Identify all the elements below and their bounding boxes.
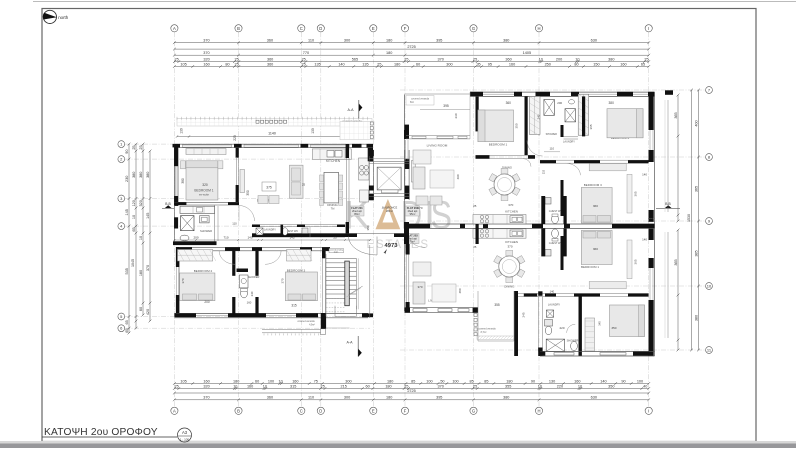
svg-text:90: 90 — [621, 379, 625, 383]
svg-text:A-A: A-A — [347, 341, 354, 345]
svg-text:380: 380 — [503, 396, 509, 400]
svg-text:370: 370 — [507, 245, 512, 249]
svg-text:covered veranda: covered veranda — [297, 320, 315, 323]
svg-text:180: 180 — [386, 396, 392, 400]
svg-text:315: 315 — [290, 384, 296, 388]
svg-text:25: 25 — [644, 57, 648, 61]
svg-text:320: 320 — [203, 57, 209, 61]
svg-text:BEDROOM 3: BEDROOM 3 — [584, 183, 602, 187]
svg-text:115: 115 — [541, 169, 545, 174]
svg-text:95: 95 — [488, 62, 492, 66]
svg-text:north: north — [58, 15, 69, 20]
svg-text:10: 10 — [538, 384, 542, 388]
svg-text:85: 85 — [484, 379, 488, 383]
svg-text:380: 380 — [608, 57, 614, 61]
svg-text:370: 370 — [181, 278, 185, 283]
svg-text:10: 10 — [278, 379, 282, 383]
svg-text:395: 395 — [436, 396, 442, 400]
svg-text:4,9m²: 4,9m² — [309, 324, 315, 327]
svg-text:360: 360 — [267, 39, 273, 43]
svg-text:105: 105 — [180, 379, 186, 383]
svg-text:100: 100 — [426, 379, 432, 383]
svg-text:100: 100 — [268, 379, 274, 383]
svg-text:535: 535 — [125, 268, 129, 274]
svg-text:160: 160 — [203, 62, 209, 66]
svg-text:370: 370 — [417, 285, 422, 289]
svg-text:10: 10 — [575, 57, 579, 61]
svg-text:BEDROOM 1: BEDROOM 1 — [581, 265, 599, 269]
svg-text:360: 360 — [593, 204, 598, 208]
svg-text:120: 120 — [132, 200, 136, 206]
svg-text:250: 250 — [545, 62, 551, 66]
svg-text:B-B: B-B — [665, 202, 671, 206]
svg-text:90: 90 — [531, 379, 535, 383]
svg-text:215: 215 — [340, 384, 346, 388]
svg-text:60: 60 — [139, 307, 143, 311]
svg-text:130: 130 — [311, 128, 315, 134]
svg-text:65: 65 — [641, 62, 645, 66]
svg-text:85: 85 — [469, 379, 473, 383]
svg-text:105: 105 — [180, 62, 186, 66]
svg-text:ΚΑΤΟΨΗ 2ου ΟΡΟΦΟΥ: ΚΑΤΟΨΗ 2ου ΟΡΟΦΟΥ — [44, 427, 158, 438]
svg-text:245: 245 — [522, 312, 526, 317]
svg-text:365: 365 — [674, 112, 678, 118]
svg-text:350: 350 — [366, 225, 370, 230]
svg-text:1045: 1045 — [131, 259, 135, 267]
svg-text:25: 25 — [321, 384, 325, 388]
svg-text:10: 10 — [139, 236, 143, 240]
svg-text:200: 200 — [204, 300, 210, 304]
svg-text:65: 65 — [125, 320, 129, 324]
svg-text:E: E — [372, 26, 375, 31]
svg-text:40: 40 — [643, 384, 647, 388]
svg-text:25: 25 — [333, 236, 337, 240]
svg-text:135: 135 — [362, 62, 368, 66]
svg-text:140: 140 — [550, 289, 555, 293]
svg-text:10: 10 — [539, 57, 543, 61]
svg-text:BEDROOM 1: BEDROOM 1 — [489, 143, 508, 147]
svg-text:480: 480 — [458, 288, 462, 293]
svg-text:A-A: A-A — [348, 108, 355, 112]
svg-text:8,7m²: 8,7m² — [481, 331, 487, 334]
svg-text:25: 25 — [473, 57, 477, 61]
svg-text:BEDROOM 2: BEDROOM 2 — [194, 269, 213, 273]
svg-text:D: D — [319, 408, 322, 413]
svg-text:KITCHEN: KITCHEN — [505, 210, 518, 214]
svg-text:76m²: 76m² — [409, 241, 415, 244]
svg-text:320: 320 — [203, 384, 209, 388]
svg-text:D: D — [319, 26, 322, 31]
svg-text:220: 220 — [557, 384, 563, 388]
svg-text:25: 25 — [235, 57, 239, 61]
svg-text:BEDROOM 3: BEDROOM 3 — [287, 269, 306, 273]
svg-text:370: 370 — [203, 51, 209, 55]
svg-text:90: 90 — [125, 149, 129, 153]
svg-text:360: 360 — [267, 57, 273, 61]
svg-text:95m²: 95m² — [410, 213, 416, 216]
svg-text:25: 25 — [473, 384, 477, 388]
svg-text:4973: 4973 — [385, 243, 399, 249]
svg-text:145: 145 — [289, 236, 294, 240]
svg-text:140: 140 — [642, 173, 647, 177]
svg-text:370: 370 — [203, 39, 209, 43]
svg-text:200: 200 — [557, 101, 562, 105]
svg-text:60: 60 — [416, 62, 420, 66]
svg-text:300: 300 — [344, 396, 350, 400]
svg-text:C: C — [300, 26, 303, 31]
svg-text:140: 140 — [338, 62, 344, 66]
svg-text:370: 370 — [417, 206, 422, 210]
svg-text:350: 350 — [246, 190, 250, 196]
svg-text:25: 25 — [174, 57, 178, 61]
svg-text:SHOWER: SHOWER — [546, 133, 557, 136]
svg-text:160: 160 — [203, 379, 209, 383]
svg-text:380: 380 — [146, 172, 150, 178]
svg-text:370: 370 — [438, 384, 444, 388]
svg-text:140: 140 — [642, 238, 647, 242]
svg-text:50: 50 — [440, 379, 444, 383]
svg-text:365: 365 — [589, 124, 593, 129]
svg-text:180: 180 — [233, 379, 239, 383]
svg-text:360: 360 — [593, 247, 598, 251]
svg-text:345: 345 — [598, 321, 602, 326]
svg-text:160: 160 — [247, 301, 252, 305]
svg-text:395: 395 — [443, 104, 449, 108]
svg-text:350: 350 — [611, 326, 616, 330]
svg-text:covered veranda: covered veranda — [478, 328, 496, 331]
svg-text:Tbl: Tbl — [331, 207, 335, 211]
svg-text:230: 230 — [454, 113, 458, 118]
svg-text:395: 395 — [436, 39, 442, 43]
svg-text:C: C — [300, 408, 303, 413]
svg-text:GUEST WC: GUEST WC — [549, 242, 563, 245]
svg-text:85: 85 — [411, 379, 415, 383]
svg-text:GUEST WC: GUEST WC — [549, 210, 563, 213]
svg-text:G: G — [472, 408, 475, 413]
svg-text:365: 365 — [634, 191, 638, 196]
svg-text:SHOWER: SHOWER — [248, 275, 260, 279]
svg-text:380: 380 — [181, 178, 185, 184]
svg-text:130: 130 — [549, 379, 555, 383]
svg-text:35: 35 — [476, 62, 480, 66]
svg-text:2725: 2725 — [407, 389, 415, 393]
svg-text:370: 370 — [438, 57, 444, 61]
svg-text:145: 145 — [125, 209, 129, 215]
svg-text:630: 630 — [591, 396, 597, 400]
svg-text:LAUNDRY: LAUNDRY — [548, 303, 561, 307]
svg-text:710: 710 — [223, 236, 228, 240]
svg-text:25: 25 — [473, 204, 477, 208]
svg-text:10: 10 — [263, 384, 267, 388]
svg-text:60: 60 — [255, 379, 259, 383]
svg-text:220: 220 — [559, 326, 564, 330]
svg-text:A: A — [173, 26, 176, 31]
svg-text:565: 565 — [352, 57, 358, 61]
svg-text:200: 200 — [556, 57, 562, 61]
svg-text:25: 25 — [302, 183, 306, 187]
svg-text:95m²: 95m² — [354, 213, 360, 216]
svg-text:160: 160 — [509, 62, 515, 66]
svg-text:stairs: stairs — [334, 250, 339, 253]
svg-text:LAUNDRY: LAUNDRY — [563, 140, 575, 143]
svg-text:380: 380 — [609, 101, 615, 105]
svg-text:355: 355 — [505, 384, 511, 388]
svg-text:I: I — [648, 26, 649, 31]
svg-text:180: 180 — [386, 51, 392, 55]
svg-text:315: 315 — [291, 304, 297, 308]
svg-text:veranda: veranda — [648, 221, 656, 223]
svg-text:80: 80 — [225, 62, 229, 66]
svg-text:25: 25 — [404, 384, 408, 388]
svg-text:I: I — [648, 408, 649, 413]
svg-text:370: 370 — [203, 396, 209, 400]
svg-text:25: 25 — [302, 57, 306, 61]
svg-text:385: 385 — [694, 250, 698, 256]
svg-text:180: 180 — [506, 379, 512, 383]
svg-text:25: 25 — [235, 62, 239, 66]
svg-text:110: 110 — [549, 147, 554, 151]
svg-text:25: 25 — [132, 145, 136, 149]
svg-text:370: 370 — [146, 265, 150, 271]
svg-text:B: B — [237, 26, 240, 31]
svg-text:10: 10 — [132, 215, 136, 219]
svg-text:25: 25 — [174, 384, 178, 388]
svg-text:375: 375 — [266, 186, 272, 190]
svg-text:8m²: 8m² — [410, 101, 414, 104]
svg-text:A: A — [173, 408, 176, 413]
svg-text:75: 75 — [314, 379, 318, 383]
svg-text:130: 130 — [180, 128, 184, 134]
svg-text:F: F — [404, 408, 407, 413]
svg-text:365: 365 — [694, 186, 698, 192]
svg-text:180: 180 — [385, 384, 391, 388]
svg-text:370: 370 — [281, 278, 285, 283]
svg-text:180: 180 — [394, 62, 400, 66]
svg-text:350: 350 — [608, 384, 614, 388]
svg-text:220: 220 — [233, 135, 237, 141]
svg-text:140: 140 — [600, 379, 606, 383]
svg-text:320: 320 — [202, 183, 208, 187]
svg-text:180: 180 — [139, 270, 143, 276]
svg-text:25: 25 — [377, 62, 381, 66]
svg-text:65: 65 — [125, 328, 129, 332]
svg-text:1140: 1140 — [268, 132, 276, 136]
svg-text:DINING: DINING — [327, 203, 338, 207]
svg-text:100: 100 — [637, 379, 643, 383]
svg-text:B: B — [237, 408, 240, 413]
svg-text:365: 365 — [634, 259, 638, 264]
svg-text:10: 10 — [578, 384, 582, 388]
svg-text:ESTATES: ESTATES — [367, 239, 430, 251]
svg-text:380: 380 — [139, 172, 143, 178]
svg-text:SHOWER: SHOWER — [200, 229, 212, 233]
svg-text:360: 360 — [506, 101, 512, 105]
svg-text:25: 25 — [404, 57, 408, 61]
svg-text:770: 770 — [303, 51, 309, 55]
svg-text:355: 355 — [494, 303, 500, 307]
svg-text:A3: A3 — [182, 430, 188, 435]
svg-text:150: 150 — [593, 62, 599, 66]
svg-text:380: 380 — [694, 315, 698, 321]
svg-text:490: 490 — [456, 174, 460, 179]
svg-text:25: 25 — [139, 145, 143, 149]
svg-text:LIVING ROOM: LIVING ROOM — [427, 144, 448, 148]
svg-text:135: 135 — [314, 62, 320, 66]
svg-text:160: 160 — [574, 379, 580, 383]
svg-text:160: 160 — [292, 379, 298, 383]
svg-text:1405: 1405 — [523, 51, 531, 55]
svg-text:350: 350 — [515, 123, 519, 128]
svg-text:420: 420 — [146, 309, 150, 315]
svg-text:360: 360 — [267, 62, 273, 66]
svg-text:10: 10 — [707, 283, 712, 288]
svg-text:G: G — [472, 26, 475, 31]
svg-text:240: 240 — [537, 114, 541, 119]
svg-text:110: 110 — [232, 221, 237, 225]
svg-text:100: 100 — [452, 379, 458, 383]
svg-text:110: 110 — [308, 396, 314, 400]
svg-text:160: 160 — [247, 384, 253, 388]
svg-text:160: 160 — [620, 62, 626, 66]
svg-text:300: 300 — [446, 62, 452, 66]
svg-text:B-B: B-B — [165, 202, 171, 206]
svg-text:280m²: 280m² — [386, 210, 393, 213]
svg-text:300: 300 — [345, 379, 351, 383]
svg-text:230: 230 — [125, 176, 129, 182]
svg-text:F: F — [404, 26, 407, 31]
svg-text:365: 365 — [674, 259, 678, 265]
svg-text:180: 180 — [386, 39, 392, 43]
svg-text:240: 240 — [250, 291, 254, 296]
svg-text:380: 380 — [132, 172, 136, 178]
svg-text:H: H — [537, 408, 540, 413]
svg-text:520: 520 — [139, 200, 143, 206]
svg-text:1530: 1530 — [687, 214, 691, 222]
svg-text:25: 25 — [473, 245, 477, 249]
svg-text:630: 630 — [591, 39, 597, 43]
svg-text:2725: 2725 — [407, 45, 415, 49]
svg-text:H: H — [537, 26, 540, 31]
svg-text:E: E — [372, 408, 375, 413]
svg-text:360: 360 — [505, 57, 511, 61]
svg-text:DINING: DINING — [504, 285, 515, 289]
svg-text:380: 380 — [503, 39, 509, 43]
svg-text:145: 145 — [146, 213, 150, 219]
svg-text:60: 60 — [365, 384, 369, 388]
svg-text:180: 180 — [387, 379, 393, 383]
svg-text:360: 360 — [267, 396, 273, 400]
svg-text:200: 200 — [193, 236, 198, 240]
svg-text:LAUNDRY: LAUNDRY — [264, 229, 276, 232]
svg-text:80: 80 — [574, 62, 578, 66]
svg-text:1 : 100: 1 : 100 — [180, 438, 190, 442]
svg-text:25: 25 — [302, 62, 306, 66]
svg-text:en-suite: en-suite — [199, 192, 209, 196]
svg-text:65: 65 — [132, 227, 136, 231]
svg-text:400: 400 — [694, 120, 698, 126]
svg-text:140: 140 — [247, 236, 252, 240]
svg-text:370: 370 — [508, 203, 513, 207]
svg-text:300: 300 — [344, 39, 350, 43]
svg-text:110: 110 — [308, 39, 314, 43]
svg-text:10: 10 — [233, 384, 237, 388]
svg-text:covered: covered — [648, 218, 655, 220]
